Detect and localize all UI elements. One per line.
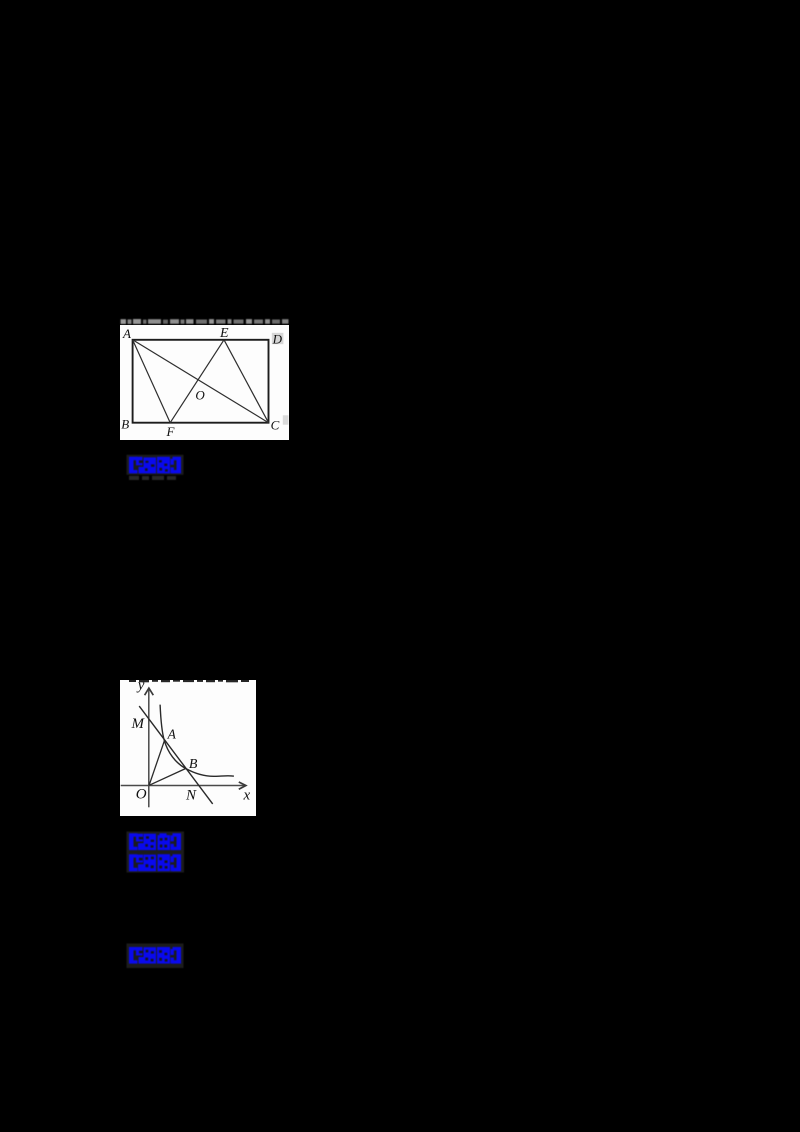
y axis [148, 689, 150, 807]
wire O-A [149, 740, 164, 785]
wire line M-N [139, 706, 212, 804]
artifact patch near D [272, 332, 284, 343]
svg-text:B: B [121, 416, 129, 431]
figure 2 white panel: hyperbola with triangle OAB [120, 680, 256, 816]
svg-text:B: B [189, 757, 198, 772]
wire E-F [170, 339, 224, 422]
svg-text:O: O [136, 787, 147, 803]
svg-text:F: F [166, 424, 176, 439]
cut-off text fragments at panel top [129, 680, 249, 682]
svg-text:D: D [272, 331, 283, 346]
svg-text:y: y [136, 680, 145, 694]
wire O-B [149, 768, 186, 785]
artifact patch near D [272, 688, 284, 699]
svg-text:A: A [122, 326, 131, 341]
svg-text:A: A [166, 726, 176, 741]
rectangle ABCD [133, 339, 269, 422]
blue tag 1 : 【答案】 [126, 454, 186, 482]
svg-text:N: N [185, 787, 197, 803]
svg-text:M: M [130, 716, 145, 732]
svg-text:E: E [219, 326, 229, 341]
wire A-F [133, 339, 171, 422]
figure 1 white panel: rectangle ABCD with E,F,O [120, 325, 289, 441]
artifact patch right of C [283, 415, 289, 424]
x axis [120, 784, 244, 786]
wire E-C [224, 339, 269, 422]
faint next-line remnant [129, 475, 176, 479]
x axis arrowhead [239, 782, 246, 789]
blue tag 2 and 3 : 【考点】 / 【分析】 [126, 831, 186, 874]
svg-text:x: x [242, 787, 250, 803]
svg-text:C: C [271, 417, 280, 432]
y axis arrowhead [144, 688, 153, 695]
blue tag 4 : 【解答】 [126, 943, 186, 969]
svg-text:O: O [195, 387, 205, 402]
hyperbola curve [160, 705, 234, 777]
wire diagonal A-C [133, 339, 269, 422]
artifact patch right of C [283, 770, 289, 779]
figure 1 cut-off text strip (gray glyph fragments on black) [120, 318, 289, 325]
